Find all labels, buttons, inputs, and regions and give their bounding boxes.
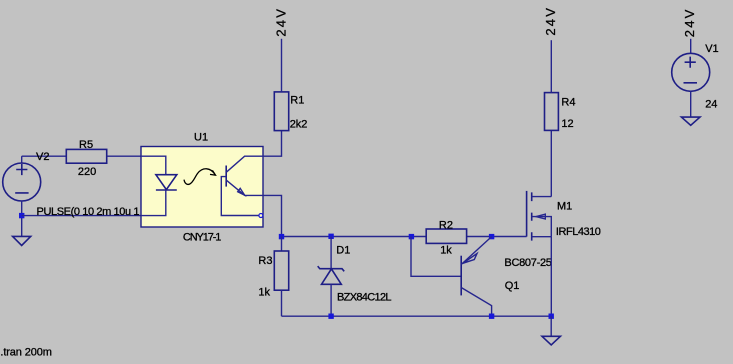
svg-text:24V: 24V	[273, 9, 288, 37]
svg-text:BC807-25: BC807-25	[504, 257, 552, 269]
svg-text:U1: U1	[194, 131, 208, 143]
wire D1 top	[330, 237, 332, 269]
resistor R4	[545, 93, 559, 131]
resistor R5	[66, 149, 106, 163]
resistor R2	[426, 229, 466, 243]
M1 source stub	[532, 236, 552, 238]
ground bottom right	[542, 336, 560, 345]
wire source down	[550, 237, 552, 317]
wire source rail bottom	[282, 315, 552, 317]
svg-text:24: 24	[705, 99, 717, 111]
svg-text:R5: R5	[79, 139, 93, 151]
U1 LED diode	[156, 175, 177, 190]
voltage source V1	[672, 53, 710, 91]
node junction D1 bottom	[328, 314, 333, 319]
ground under V2	[13, 236, 31, 245]
M1 body stub	[532, 217, 552, 237]
U1 phototransistor base bar	[225, 166, 227, 187]
node junction R2 right	[489, 234, 494, 239]
svg-text:R4: R4	[561, 97, 575, 109]
wire R4 top	[550, 40, 552, 92]
wire V2 bottom	[21, 201, 23, 236]
M1 body arrow	[536, 214, 545, 219]
svg-text:CNY17-1: CNY17-1	[183, 231, 222, 243]
U1 phototransistor emitter	[226, 180, 263, 195]
wire emitter row	[263, 195, 282, 236]
transistor Q1 base bar	[460, 256, 462, 296]
U1 base open pin	[259, 214, 263, 218]
svg-text:Q1: Q1	[505, 280, 520, 292]
wire drain to R4	[550, 130, 552, 196]
svg-text:PULSE(0 10 2m 10u 1: PULSE(0 10 2m 10u 1	[37, 206, 140, 218]
U1 LED cathode bar	[156, 189, 177, 191]
node junction D1 top	[328, 234, 333, 239]
Q1 emitter	[461, 237, 491, 265]
wire base of Q1	[411, 237, 461, 277]
wire V1 bottom	[690, 91, 692, 117]
svg-text:12: 12	[561, 118, 573, 130]
wire V2 to R5	[22, 155, 67, 157]
svg-text:IRFL4310: IRFL4310	[556, 226, 601, 238]
U1 light arrow	[184, 169, 215, 185]
U1 emitter arrow	[238, 188, 245, 195]
svg-text:R3: R3	[258, 255, 272, 267]
U1 base wire	[221, 177, 259, 216]
svg-text:1k: 1k	[440, 245, 452, 257]
Q1 emitter arrow	[463, 254, 477, 264]
ground under V1	[681, 117, 700, 125]
wire pulse row V2 to U1	[22, 215, 141, 217]
wire V1 top	[690, 39, 692, 54]
wire collector to R1 column	[263, 131, 282, 157]
svg-text:R2: R2	[439, 219, 453, 231]
wire R5 to U1	[107, 155, 141, 157]
wire R3 top stub	[281, 237, 283, 252]
optocoupler U1 body	[141, 147, 263, 228]
U1 LED cathode wire	[141, 190, 166, 216]
Q1 collector	[461, 288, 491, 317]
svg-text:V1: V1	[705, 43, 718, 55]
voltage source V2	[3, 163, 41, 201]
node junction V2/pulse	[19, 213, 24, 218]
node junction rail left	[279, 234, 284, 239]
node junction source/ground	[549, 314, 554, 319]
svg-text:.tran 200m: .tran 200m	[0, 347, 52, 359]
node junction Q1 collector	[489, 314, 494, 319]
wire R1 top	[281, 39, 283, 92]
svg-text:2k2: 2k2	[290, 119, 308, 131]
svg-text:220: 220	[78, 166, 96, 178]
svg-text:D1: D1	[336, 245, 350, 257]
resistor R3	[274, 251, 288, 290]
M1 drain stub	[532, 196, 552, 198]
svg-text:24V: 24V	[682, 9, 697, 37]
wire V2 top stub	[21, 156, 23, 163]
U1 phototransistor collector	[226, 156, 263, 172]
svg-text:1k: 1k	[258, 286, 270, 298]
wire gate rail	[282, 236, 527, 238]
wire R3 bottom stub	[281, 290, 283, 316]
mosfet M1 gate line	[526, 191, 528, 237]
svg-text:BZX84C12L: BZX84C12L	[337, 291, 392, 303]
wire to ground bottom	[550, 316, 552, 336]
M1 channel bars	[531, 192, 533, 240]
U1 LED anode wire	[141, 156, 166, 175]
resistor R1	[274, 92, 288, 131]
wire D1 bottom	[330, 284, 332, 316]
svg-text:M1: M1	[557, 201, 572, 213]
zener diode D1	[318, 266, 345, 284]
svg-text:V2: V2	[36, 151, 49, 163]
svg-text:R1: R1	[290, 94, 304, 106]
node junction R2 left	[409, 234, 414, 239]
svg-text:24V: 24V	[543, 8, 558, 36]
